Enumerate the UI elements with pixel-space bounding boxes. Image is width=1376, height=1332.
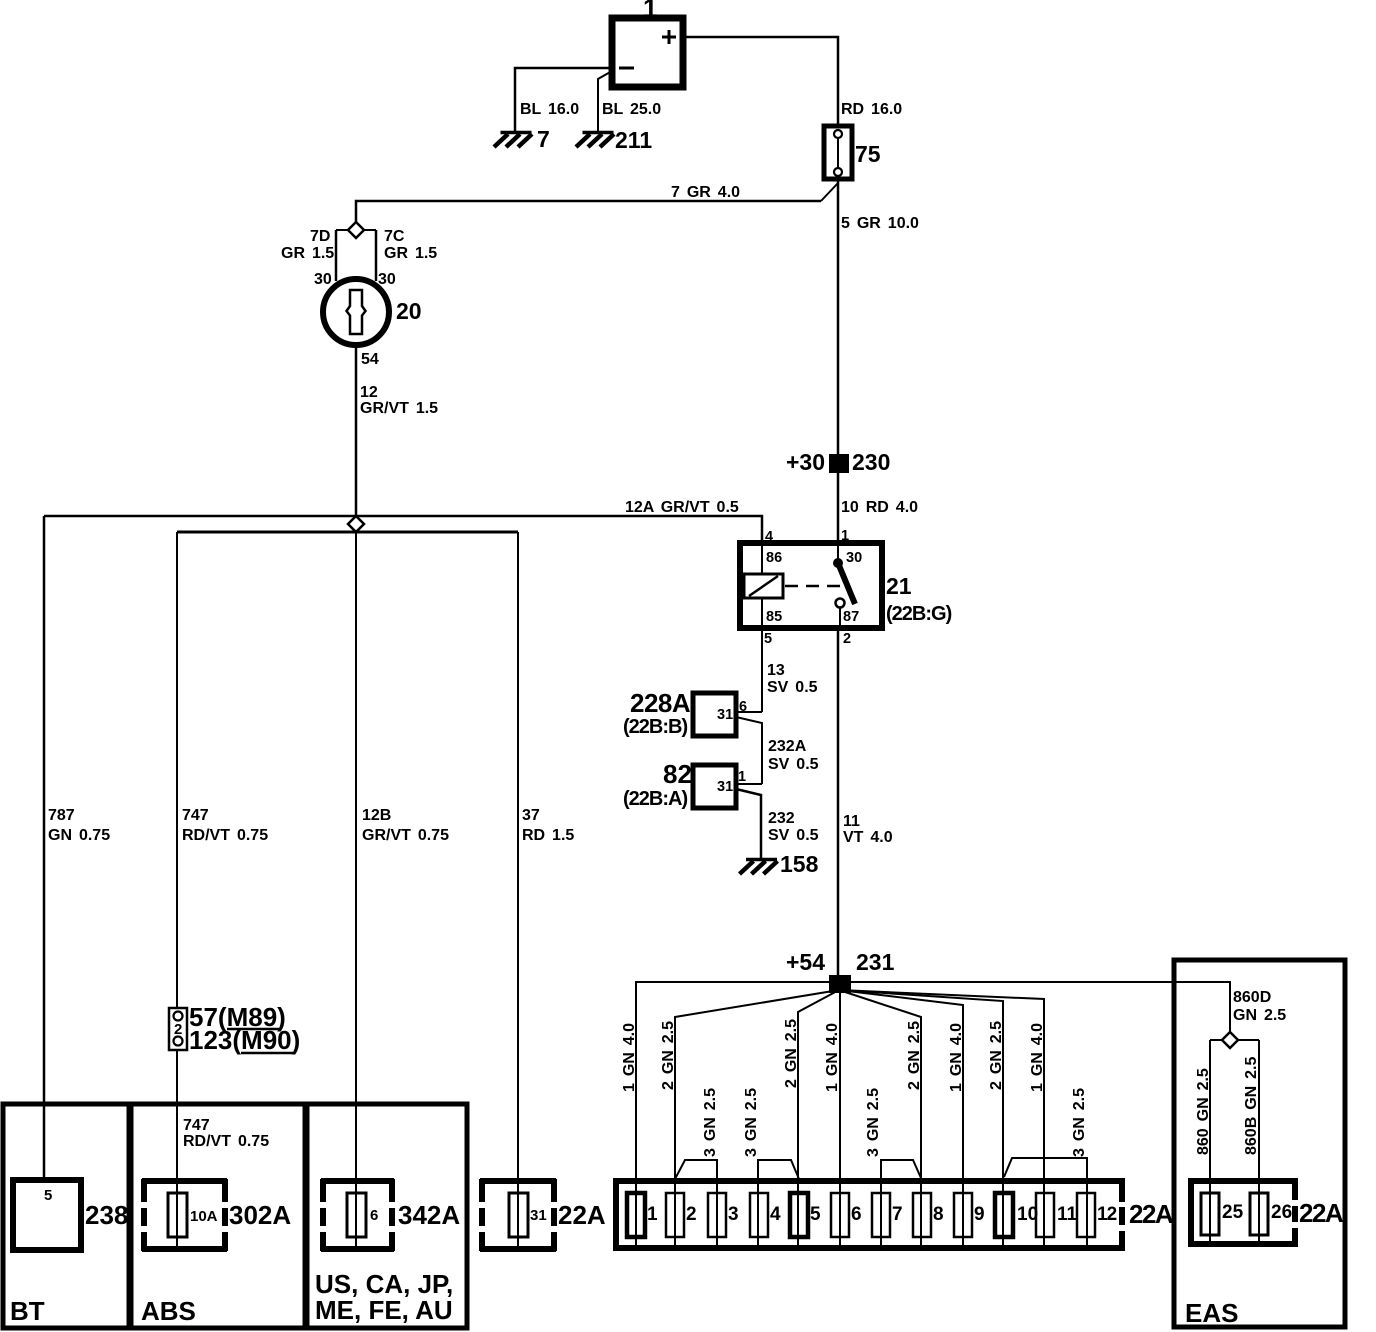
wire branch diagonal at fuse bottom: [821, 183, 838, 201]
wire battery minus to ground 211: [598, 71, 612, 131]
svg-text:GR 1.5: GR 1.5: [384, 245, 437, 262]
svg-text:5: 5: [810, 1204, 821, 1225]
pin 8: [913, 1193, 931, 1237]
pin 10: [995, 1193, 1013, 1237]
junction diamond: [348, 516, 364, 532]
svg-text:158: 158: [780, 851, 819, 877]
svg-text:2 GN 2.5: 2 GN 2.5: [906, 1021, 923, 1090]
svg-text:GR/VT 0.75: GR/VT 0.75: [362, 827, 449, 844]
svg-text:238: 238: [85, 1200, 128, 1230]
svg-text:787: 787: [48, 807, 75, 824]
pin 12: [1077, 1193, 1095, 1237]
pin 4: [750, 1193, 768, 1237]
svg-text:21: 21: [886, 573, 912, 599]
wire 860B to pin 26: [1258, 1040, 1260, 1244]
svg-text:2: 2: [843, 631, 851, 647]
pin 25: [1201, 1193, 1219, 1235]
svg-text:31: 31: [717, 707, 733, 723]
svg-text:+30: +30: [786, 449, 825, 475]
svg-text:7D: 7D: [310, 228, 330, 245]
wire 747 from junction to ABS 302A: [176, 532, 178, 1248]
svg-text:3 GN 2.5: 3 GN 2.5: [865, 1088, 882, 1157]
inline connector 57(M89)/123(M90): [169, 1008, 187, 1050]
svg-text:6: 6: [370, 1207, 378, 1224]
relay coil wire top: [761, 543, 763, 574]
wire relay 85 to connector 228A: [761, 628, 763, 712]
svg-text:30: 30: [846, 550, 862, 566]
wire stub left of diamond: [336, 229, 348, 231]
svg-text:BL 25.0: BL 25.0: [602, 101, 661, 118]
svg-text:5: 5: [764, 631, 772, 647]
wire relay 87 down to node 231: [837, 628, 840, 975]
svg-text:3 GN 2.5: 3 GN 2.5: [1071, 1088, 1088, 1157]
battery plus terminal: [662, 30, 676, 44]
svg-text:20: 20: [396, 298, 422, 324]
connector 238 box: [13, 1180, 81, 1250]
wire stub 82 pin 1: [736, 783, 762, 785]
wire node 231 to pin 5: [798, 990, 839, 1246]
wire 7C to ignition pin 30: [375, 230, 378, 281]
svg-text:302A: 302A: [229, 1200, 291, 1230]
svg-text:10A: 10A: [190, 1208, 218, 1225]
node +30 230: [829, 454, 849, 473]
svg-text:342A: 342A: [398, 1200, 460, 1230]
wire node 231 to EAS: [851, 982, 1230, 1032]
wire bridge pin5 to pin4: [758, 1160, 799, 1246]
svg-text:RD/VT 0.75: RD/VT 0.75: [182, 827, 268, 844]
wire 7D to ignition pin 30: [335, 230, 338, 281]
svg-text:SV 0.5: SV 0.5: [767, 679, 818, 696]
connector 22A EAS box: [1188, 1178, 1298, 1247]
svg-text:232: 232: [768, 810, 795, 827]
battery minus terminal: [619, 67, 634, 70]
BT box: [3, 1104, 129, 1328]
fuse 75: [824, 126, 852, 179]
svg-text:12: 12: [360, 384, 378, 401]
svg-text:GN 2.5: GN 2.5: [1233, 1007, 1286, 1024]
svg-text:2: 2: [686, 1204, 697, 1225]
svg-text:5: 5: [44, 1187, 52, 1204]
ground 158: [740, 860, 778, 875]
svg-text:2 GN 2.5: 2 GN 2.5: [660, 1021, 677, 1090]
fuse holder 342A dashed box: [321, 1179, 394, 1251]
relay dashed actuator link: [785, 585, 843, 588]
svg-text:230: 230: [852, 449, 890, 475]
svg-text:25: 25: [1222, 1202, 1244, 1223]
svg-text:31: 31: [530, 1207, 547, 1224]
fuse element in 342A: [347, 1193, 366, 1237]
svg-text:GR/VT 1.5: GR/VT 1.5: [360, 400, 438, 417]
EAS box: [1174, 960, 1345, 1327]
svg-text:87: 87: [843, 609, 859, 625]
svg-text:RD 1.5: RD 1.5: [522, 827, 574, 844]
svg-text:BL 16.0: BL 16.0: [520, 101, 579, 118]
connector 228A box: [693, 693, 736, 736]
EAS split diamond: [1222, 1032, 1238, 1048]
svg-text:123(M90): 123(M90): [189, 1025, 300, 1055]
pin 7: [872, 1193, 890, 1237]
svg-text:12: 12: [1097, 1204, 1117, 1225]
svg-text:1 GN 4.0: 1 GN 4.0: [621, 1023, 638, 1092]
svg-text:3 GN 2.5: 3 GN 2.5: [743, 1088, 760, 1157]
wire node 231 to pin 1: [636, 982, 829, 1246]
svg-text:BT: BT: [10, 1296, 45, 1326]
svg-text:860B GN 2.5: 860B GN 2.5: [1243, 1057, 1260, 1155]
svg-text:7: 7: [892, 1204, 903, 1225]
wire stub right of diamond: [364, 229, 376, 231]
wire node 231 to pin 6: [839, 993, 841, 1246]
pin 2: [666, 1193, 684, 1237]
pin 26: [1250, 1193, 1268, 1235]
svg-text:ABS: ABS: [141, 1296, 196, 1326]
wire 860 to pin 25: [1209, 1040, 1211, 1244]
wire node 231 to pin 2: [675, 990, 839, 1246]
pin 5: [790, 1193, 808, 1237]
fuse holder 302A dashed box: [142, 1179, 227, 1251]
svg-text:RD 16.0: RD 16.0: [841, 101, 902, 118]
wire stub right of EAS diamond: [1238, 1039, 1259, 1041]
node diamond above ignition switch: [348, 222, 364, 238]
wire node 231 to pin 8: [839, 990, 921, 1246]
svg-text:22A: 22A: [558, 1200, 606, 1230]
relay switch arm: [838, 563, 855, 604]
relay switch contact 87: [836, 599, 845, 608]
svg-text:2 GN 2.5: 2 GN 2.5: [783, 1019, 800, 1088]
relay coil: [744, 574, 783, 598]
wire stub 228A pin 6: [736, 711, 762, 713]
svg-text:54: 54: [361, 351, 379, 368]
wire bridge pin2 to pin3: [675, 1160, 717, 1246]
svg-text:12B: 12B: [362, 807, 391, 824]
svg-text:SV 0.5: SV 0.5: [768, 827, 819, 844]
ABS box: [131, 1104, 305, 1328]
svg-text:747: 747: [183, 1117, 210, 1134]
ignition switch 20: [323, 279, 389, 345]
svg-text:1: 1: [738, 769, 746, 785]
svg-text:+54: +54: [786, 949, 825, 975]
fuse element in 302A: [168, 1193, 187, 1237]
svg-text:82: 82: [663, 759, 692, 789]
wire bridge pin10 to pin12: [1004, 1158, 1087, 1246]
svg-text:26: 26: [1271, 1202, 1292, 1223]
wire battery minus to ground 7: [515, 68, 612, 131]
svg-text:RD/VT 0.75: RD/VT 0.75: [183, 1133, 269, 1150]
wire ignition pin 54 down: [355, 345, 358, 516]
svg-text:228A: 228A: [630, 688, 691, 718]
svg-text:860 GN 2.5: 860 GN 2.5: [1195, 1068, 1212, 1155]
svg-text:1 GN 4.0: 1 GN 4.0: [948, 1023, 965, 1092]
ground 7: [494, 133, 532, 148]
relay 21 box: [740, 543, 882, 628]
svg-text:211: 211: [615, 127, 652, 153]
svg-text:1: 1: [647, 1204, 658, 1225]
svg-text:30: 30: [314, 271, 332, 288]
junction horizontal wire upper: [44, 516, 762, 543]
svg-text:1 GN 4.0: 1 GN 4.0: [1029, 1023, 1046, 1092]
svg-text:2: 2: [174, 1021, 182, 1038]
svg-text:GR 1.5: GR 1.5: [281, 245, 334, 262]
wire battery plus to fuse 75: [683, 37, 838, 126]
connector 22A (pin 31) dashed box: [480, 1179, 556, 1251]
svg-text:75: 75: [855, 141, 881, 167]
svg-text:7C: 7C: [384, 228, 405, 245]
svg-text:(22B:G): (22B:G): [886, 603, 952, 625]
market variant box US CA JP ME FE AU: [307, 1104, 467, 1328]
junction horizontal wire lower: [177, 531, 518, 534]
svg-text:30: 30: [378, 271, 396, 288]
pin 6: [831, 1193, 849, 1237]
svg-text:13: 13: [767, 662, 785, 679]
svg-text:VT 4.0: VT 4.0: [843, 829, 893, 846]
svg-text:747: 747: [182, 807, 209, 824]
relay coil wire bottom: [761, 598, 763, 628]
svg-text:4: 4: [770, 1204, 781, 1225]
svg-text:12A GR/VT 0.5: 12A GR/VT 0.5: [625, 499, 739, 516]
svg-text:EAS: EAS: [1185, 1298, 1238, 1328]
svg-text:11: 11: [1057, 1204, 1078, 1225]
wire node 231 to pin 10: [839, 990, 1003, 1246]
wire node 231 to pin 9: [839, 990, 963, 1246]
svg-text:GN 0.75: GN 0.75: [48, 827, 110, 844]
svg-text:3 GN 2.5: 3 GN 2.5: [702, 1088, 719, 1157]
svg-text:11: 11: [843, 813, 860, 830]
wire bridge pin8 to pin7: [881, 1160, 921, 1246]
wire 7 GR 4.0 horizontal: [356, 201, 821, 222]
svg-text:6: 6: [851, 1204, 862, 1225]
svg-text:231: 231: [856, 949, 895, 975]
wire 12B from junction to 342A: [355, 532, 357, 1248]
svg-text:ME, FE, AU: ME, FE, AU: [315, 1295, 453, 1325]
relay switch contact 30: [837, 543, 839, 561]
svg-text:31: 31: [717, 779, 733, 795]
ground 211: [576, 133, 614, 148]
battery 1 box: [612, 18, 683, 87]
svg-text:(22B:A): (22B:A): [623, 788, 687, 810]
svg-text:2 GN 2.5: 2 GN 2.5: [988, 1021, 1005, 1090]
svg-text:1: 1: [643, 0, 657, 23]
svg-text:22A: 22A: [1299, 1198, 1344, 1228]
svg-text:5 GR 10.0: 5 GR 10.0: [841, 215, 919, 232]
fuse element in 22A pin 31: [509, 1193, 528, 1237]
svg-text:85: 85: [766, 609, 782, 625]
svg-text:10 RD 4.0: 10 RD 4.0: [841, 499, 918, 516]
svg-text:3: 3: [728, 1204, 739, 1225]
pin 1: [627, 1193, 645, 1237]
wire 232A from 228A to 82: [736, 717, 762, 784]
svg-text:8: 8: [933, 1204, 944, 1225]
pin 9: [954, 1193, 972, 1237]
svg-text:86: 86: [766, 550, 782, 566]
wire 787 from junction to BT 238: [43, 516, 46, 1183]
svg-text:860D: 860D: [1233, 989, 1271, 1006]
pin 3: [708, 1193, 726, 1237]
svg-text:37: 37: [522, 807, 540, 824]
svg-text:SV 0.5: SV 0.5: [768, 756, 819, 773]
svg-text:(22B:B): (22B:B): [623, 716, 687, 738]
svg-text:22A: 22A: [1129, 1199, 1174, 1229]
connector 82 box: [693, 765, 736, 808]
wire stub left of EAS diamond: [1210, 1039, 1222, 1041]
wire fuse 75 down to node 230 and relay: [837, 179, 840, 543]
wire 232 from 82 to ground 158: [736, 789, 761, 859]
wire node 231 to pin 11: [839, 990, 1044, 1246]
pin 11: [1036, 1193, 1054, 1237]
node +54 231: [829, 975, 851, 993]
svg-text:7: 7: [537, 126, 550, 152]
svg-text:9: 9: [974, 1204, 985, 1225]
connector 22A 12-pin box: [613, 1178, 1125, 1251]
svg-text:7 GR 4.0: 7 GR 4.0: [671, 184, 740, 201]
svg-text:1 GN 4.0: 1 GN 4.0: [824, 1023, 841, 1092]
wire 37 from junction to 22A pin 31: [517, 532, 519, 1246]
svg-text:232A: 232A: [768, 738, 807, 755]
